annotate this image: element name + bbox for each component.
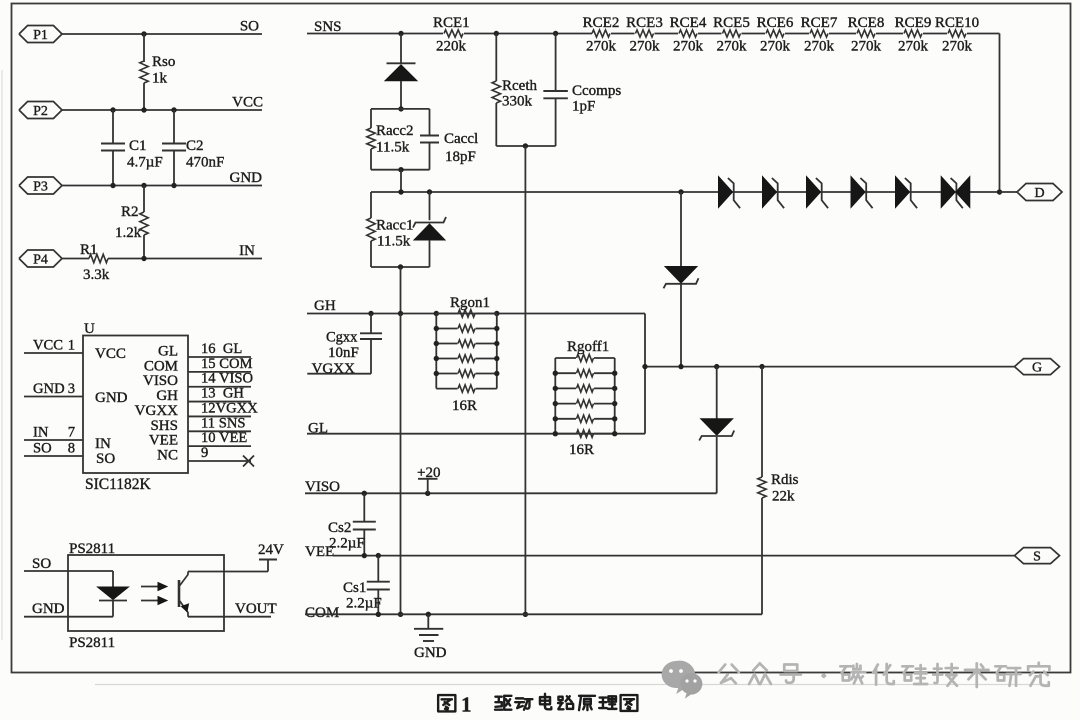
svg-text:PS2811: PS2811 (69, 635, 115, 651)
svg-text:P4: P4 (33, 252, 48, 267)
svg-text:Racc2: Racc2 (376, 123, 413, 139)
svg-text:270k: 270k (630, 39, 661, 55)
svg-text:2.2µF: 2.2µF (329, 536, 365, 552)
svg-text:16 GL: 16 GL (201, 341, 242, 357)
svg-text:VGXX: VGXX (135, 403, 178, 419)
svg-text:13 GH: 13 GH (201, 386, 244, 402)
svg-text:270k: 270k (760, 39, 791, 55)
svg-text:COM: COM (144, 358, 178, 374)
svg-text:GND: GND (95, 390, 128, 406)
svg-text:270k: 270k (586, 39, 617, 55)
svg-text:GND: GND (32, 601, 65, 617)
svg-text:R2: R2 (121, 204, 139, 220)
svg-text:C1: C1 (129, 138, 147, 154)
svg-text:270k: 270k (804, 39, 835, 55)
svg-text:12VGXX: 12VGXX (201, 400, 258, 416)
svg-text:RCE4: RCE4 (670, 15, 707, 31)
svg-text:1.2k: 1.2k (115, 225, 142, 241)
svg-text:GH: GH (156, 388, 178, 404)
svg-text:IN: IN (239, 243, 255, 259)
svg-text:G: G (1032, 360, 1042, 375)
svg-text:22k: 22k (772, 489, 795, 505)
svg-text:RCE8: RCE8 (848, 15, 885, 31)
svg-text:Ccomps: Ccomps (572, 83, 621, 99)
svg-text:Cs1: Cs1 (343, 580, 366, 596)
svg-text:16R: 16R (569, 442, 594, 458)
svg-text:D: D (1034, 186, 1044, 201)
svg-text:+20: +20 (417, 465, 440, 481)
svg-text:Cs2: Cs2 (328, 520, 351, 536)
svg-text:COM: COM (305, 605, 339, 621)
svg-text:IN: IN (33, 425, 49, 441)
svg-text:Rgon1: Rgon1 (450, 295, 490, 311)
svg-text:2.2µF: 2.2µF (346, 596, 382, 612)
svg-text:VCC: VCC (95, 346, 126, 362)
svg-text:RCE10: RCE10 (935, 15, 979, 31)
svg-text:RCE7: RCE7 (801, 15, 838, 31)
svg-text:C2: C2 (186, 138, 204, 154)
svg-text:PS2811: PS2811 (69, 541, 115, 557)
svg-text:SIC1182K: SIC1182K (85, 476, 152, 493)
svg-text:RCE1: RCE1 (433, 15, 470, 31)
svg-text:270k: 270k (942, 39, 973, 55)
svg-text:P1: P1 (33, 28, 48, 43)
svg-text:P2: P2 (33, 104, 48, 119)
svg-text:GL: GL (158, 344, 178, 360)
svg-text:VCC: VCC (33, 338, 63, 354)
svg-text:SO: SO (96, 451, 115, 467)
svg-text:10nF: 10nF (328, 345, 359, 361)
svg-text:Racc1: Racc1 (376, 218, 413, 234)
svg-text:24V: 24V (258, 542, 284, 558)
svg-text:14 VISO: 14 VISO (201, 371, 253, 387)
svg-text:220k: 220k (436, 39, 467, 55)
svg-text:1k: 1k (152, 71, 168, 87)
svg-text:Rceth: Rceth (502, 78, 537, 94)
svg-text:VOUT: VOUT (235, 601, 277, 617)
svg-text:470nF: 470nF (186, 155, 224, 171)
svg-text:S: S (1033, 549, 1041, 564)
svg-text:P3: P3 (33, 179, 48, 194)
svg-text:270k: 270k (673, 39, 704, 55)
svg-text:R1: R1 (80, 242, 98, 258)
svg-text:Cgxx: Cgxx (326, 330, 358, 346)
svg-text:1: 1 (461, 693, 472, 717)
svg-text:NC: NC (157, 448, 178, 464)
svg-text:GND: GND (33, 381, 65, 397)
svg-text:7: 7 (68, 425, 75, 441)
svg-text:SO: SO (33, 441, 52, 457)
svg-text:VEE: VEE (149, 433, 178, 449)
svg-text:9: 9 (201, 445, 208, 461)
svg-text:SO: SO (32, 556, 51, 572)
svg-text:330k: 330k (502, 94, 533, 110)
svg-text:RCE5: RCE5 (713, 15, 750, 31)
svg-text:VGXX: VGXX (312, 361, 355, 377)
svg-text:10 VEE: 10 VEE (201, 430, 247, 446)
svg-text:RCE6: RCE6 (757, 15, 794, 31)
svg-text:GND: GND (414, 645, 447, 661)
svg-text:VEE: VEE (305, 544, 334, 560)
svg-text:VISO: VISO (143, 373, 178, 389)
svg-text:Rso: Rso (152, 54, 175, 70)
svg-text:RCE2: RCE2 (583, 15, 620, 31)
svg-text:Rdis: Rdis (771, 472, 799, 488)
svg-text:11.5k: 11.5k (377, 234, 411, 250)
svg-text:8: 8 (68, 441, 75, 457)
svg-text:16R: 16R (452, 398, 477, 414)
svg-text:IN: IN (95, 436, 111, 452)
svg-text:VCC: VCC (232, 95, 263, 111)
svg-text:Rgoff1: Rgoff1 (567, 339, 609, 355)
svg-text:SO: SO (240, 19, 259, 35)
svg-text:1: 1 (68, 338, 75, 354)
svg-text:U: U (84, 321, 95, 337)
svg-text:GND: GND (230, 170, 263, 186)
svg-text:4.7µF: 4.7µF (127, 155, 163, 171)
svg-text:Caccl: Caccl (444, 131, 478, 147)
svg-text:RCE3: RCE3 (626, 15, 663, 31)
svg-text:270k: 270k (898, 39, 929, 55)
svg-text:GH: GH (314, 298, 336, 314)
svg-text:3: 3 (68, 381, 75, 397)
svg-text:11.5k: 11.5k (376, 140, 410, 156)
svg-text:3.3k: 3.3k (83, 267, 110, 283)
svg-text:270k: 270k (717, 39, 748, 55)
svg-text:RCE9: RCE9 (895, 15, 932, 31)
svg-text:11 SNS: 11 SNS (201, 415, 245, 431)
svg-text:270k: 270k (851, 39, 882, 55)
svg-text:1pF: 1pF (572, 99, 595, 115)
svg-text:18pF: 18pF (445, 149, 476, 165)
svg-text:15 COM: 15 COM (201, 356, 253, 372)
svg-text:SHS: SHS (150, 418, 178, 434)
